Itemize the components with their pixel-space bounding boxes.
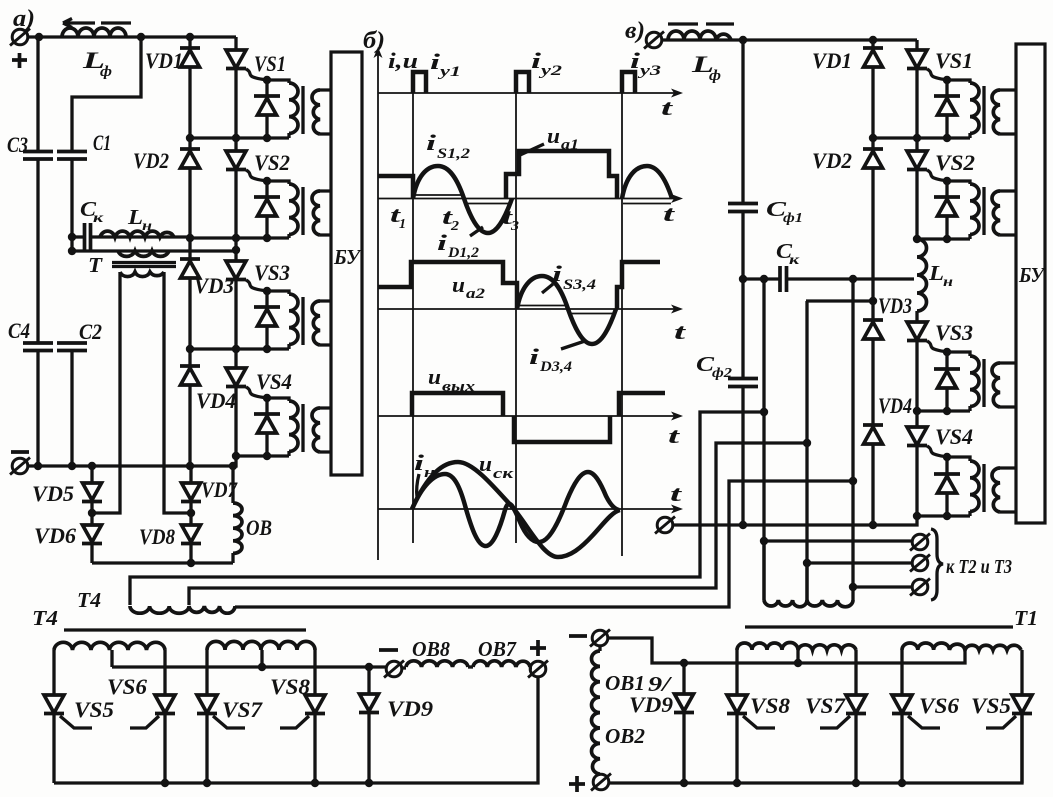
svg-text:VS8: VS8 (750, 693, 790, 718)
diode VD2 (180, 149, 200, 168)
control unit BU1 (331, 52, 362, 475)
svg-text:ф2: ф2 (712, 366, 732, 381)
svg-text:VS5: VS5 (971, 693, 1011, 718)
wire top (27, 35, 236, 38)
node Cf bottom (739, 521, 747, 529)
diode VD8 (181, 525, 201, 544)
node VD9r top (680, 659, 688, 667)
node row3 VD (186, 345, 194, 353)
thyristor VS8 (313, 650, 316, 783)
diode VD1 (180, 48, 200, 67)
node VD9 top (365, 663, 373, 671)
inductor Lf (668, 31, 731, 40)
gate VS6 (130, 716, 159, 728)
leader iD1,2 (470, 227, 483, 236)
svg-text:VD4: VD4 (196, 388, 236, 413)
inductor Ln vertical (917, 239, 927, 311)
diode VD3 (180, 259, 200, 278)
svg-text:у2: у2 (538, 63, 563, 79)
curve in (412, 472, 619, 546)
node tap3 (849, 275, 857, 283)
gate VS5 (60, 716, 92, 728)
node secA tap (794, 659, 802, 667)
wire from minus (607, 638, 965, 663)
vertical tap2 (805, 301, 808, 600)
leader in (417, 474, 419, 497)
diode VD7 (189, 466, 192, 525)
transformer T1 core (745, 625, 1013, 628)
node Ln right (186, 234, 194, 242)
pulse transformer PT2 (254, 177, 331, 242)
svg-text:н: н (424, 465, 435, 481)
pulse transformer PT1 (254, 76, 331, 142)
node VD2-VD3 junction (869, 297, 877, 305)
pulse iy3 (622, 72, 635, 93)
node VD4 bottom (869, 521, 877, 529)
node VD5-VD6 (88, 509, 96, 517)
diode VD6 (82, 525, 102, 544)
grid t3 (515, 93, 517, 543)
svg-text:VD6: VD6 (34, 523, 76, 548)
terminal input top (644, 32, 664, 49)
axis t row2 (378, 198, 676, 200)
diode VD5 (90, 466, 93, 525)
winding OV7 (473, 661, 530, 667)
svg-text:а2: а2 (466, 286, 486, 302)
curve usk (412, 462, 620, 557)
pulse transformer PT4 (254, 394, 331, 460)
svg-text:VS7: VS7 (805, 693, 846, 718)
leader ua1 (520, 144, 544, 155)
pulse transformer PT4r (934, 453, 1016, 520)
thyristor VS3 (907, 322, 927, 341)
node row1 VS (913, 134, 921, 142)
svg-text:VD8: VD8 (139, 524, 175, 549)
thyristor VS4 (234, 349, 237, 456)
gate VS7 (213, 716, 245, 728)
ua2 pulse 2 (617, 262, 660, 309)
node Cf1 top (739, 36, 747, 44)
thyristor VS3 (234, 250, 237, 349)
line B to T4 (189, 443, 807, 605)
control unit BU2 (1016, 44, 1045, 523)
gate VS4 (927, 446, 948, 457)
svg-text:Т: Т (88, 253, 103, 277)
thyristor VS7 (205, 650, 208, 783)
node T prim (68, 247, 76, 255)
node row1 VS (232, 134, 240, 142)
wire row4 (236, 454, 289, 457)
svg-text:t: t (663, 201, 676, 226)
svg-text:VD2: VD2 (133, 148, 169, 173)
line C to T4 (235, 481, 853, 607)
svg-text:L: L (127, 205, 143, 229)
row to T2T3 terminal 3 (849, 583, 857, 591)
wire T sec left (92, 272, 120, 513)
vertical tap1 (762, 279, 765, 600)
wire from tap2 (806, 299, 873, 302)
svg-text:VS1: VS1 (935, 48, 973, 73)
svg-text:С4: С4 (8, 318, 30, 343)
svg-text:VD3: VD3 (194, 273, 234, 298)
capacitor C2 (57, 343, 87, 351)
bottom wire (54, 677, 538, 783)
wire row3 (190, 347, 289, 350)
transformer T primary (72, 249, 236, 252)
svg-text:в): в) (625, 18, 645, 44)
wire row4 (917, 514, 970, 517)
iS3,4 sine hump (517, 276, 568, 309)
node tap1 (760, 275, 768, 283)
svg-text:t: t (670, 481, 683, 506)
terminal plus (528, 661, 548, 678)
inductor Ln (90, 235, 190, 238)
node T prim right top (232, 246, 240, 254)
gate VS5r (986, 716, 1016, 728)
svg-text:S1,2: S1,2 (437, 146, 471, 162)
diode VD3 (863, 320, 883, 339)
wire Cf column (741, 40, 744, 524)
svg-text:н: н (943, 275, 953, 290)
diode VD1 (863, 48, 883, 67)
iD3,4 sine trough (568, 309, 616, 344)
svg-text:t: t (661, 95, 674, 120)
svg-text:L: L (928, 261, 944, 285)
grid t5 (621, 93, 623, 556)
node Ck line left (739, 275, 747, 283)
gate VS2 (927, 170, 948, 181)
terminal bottom left (10, 458, 30, 475)
wire C1 branch (72, 37, 141, 151)
tap group1 (110, 650, 113, 667)
diode VD9 (367, 667, 370, 783)
capacitor Cf1 (728, 204, 758, 212)
node row1 VD (186, 134, 194, 142)
thyristor VS1 (234, 37, 237, 138)
wire top (661, 38, 917, 41)
node row4 VS (913, 512, 921, 520)
svg-text:VS5: VS5 (74, 697, 114, 722)
node bottom row (187, 559, 195, 567)
capacitor Ck (72, 235, 84, 238)
nodes bottom (161, 779, 169, 787)
node line A (760, 408, 768, 416)
gate VS4 (246, 387, 267, 398)
gate VS8 (280, 716, 309, 728)
bottom wire (27, 456, 236, 466)
svg-text:i: i (552, 261, 563, 286)
svg-text:ОВ2: ОВ2 (605, 724, 645, 748)
bottom wire (673, 516, 917, 525)
node row3 VS (913, 407, 921, 415)
svg-text:VD3: VD3 (878, 293, 912, 318)
gate VS8r (743, 716, 775, 728)
wire between (468, 665, 473, 668)
svg-text:VD1: VD1 (812, 48, 852, 73)
node row4 VS (232, 452, 240, 460)
svg-text:D1,2: D1,2 (447, 245, 480, 261)
pulse iy2 (516, 72, 529, 93)
winding OV1 OV2 (598, 645, 601, 651)
thyristor VS7r (854, 650, 857, 783)
leader iD3,4 (561, 341, 585, 349)
thyristor VS2 (234, 138, 237, 238)
pulse transformer PT2r (934, 177, 1016, 243)
thyristor VS6 (163, 650, 166, 783)
wire row1 (873, 136, 970, 139)
brace kT2T3 (931, 529, 943, 600)
svg-text:к: к (93, 211, 104, 226)
diode VD4 (863, 425, 883, 444)
capacitor Ck (743, 277, 779, 280)
svg-text:VS6: VS6 (919, 693, 959, 718)
svg-text:VD4: VD4 (878, 393, 912, 418)
svg-text:u: u (547, 123, 560, 148)
svg-text:i: i (437, 230, 448, 255)
thyristor VS1 (915, 40, 918, 138)
ua2 pulse (378, 262, 517, 309)
plus sign (12, 53, 27, 68)
gate VS1 (246, 69, 267, 80)
svg-text:VD9: VD9 (387, 696, 433, 721)
svg-text:ф1: ф1 (783, 211, 803, 226)
svg-text:VS3: VS3 (254, 260, 290, 285)
thyristor VS8r (735, 650, 738, 783)
wire mid row (112, 665, 387, 668)
node row1 VD (869, 134, 877, 142)
axis t row5 (378, 508, 676, 510)
terminal minus (384, 661, 404, 678)
svg-text:к: к (789, 253, 800, 268)
thyristor VS5 (52, 650, 55, 783)
svg-text:ф: ф (709, 68, 721, 84)
inductor Lf core arrow (63, 19, 95, 28)
tap group2 (260, 650, 263, 667)
svg-text:VS2: VS2 (254, 150, 290, 175)
svg-text:S3,4: S3,4 (563, 277, 597, 293)
svg-text:Т1: Т1 (1014, 606, 1038, 630)
svg-text:VS4: VS4 (256, 369, 292, 394)
pulse transformer PT1r (934, 76, 1016, 142)
svg-text:Т4: Т4 (77, 588, 101, 612)
node row2 VS (913, 235, 921, 243)
thin current line row2 (414, 194, 463, 196)
svg-text:у1: у1 (437, 64, 461, 80)
svg-text:i,u: i,u (388, 48, 418, 73)
svg-text:VD2: VD2 (812, 148, 852, 173)
gate VS6r (908, 716, 940, 728)
svg-text:u: u (479, 451, 492, 476)
svg-text:ОВ8: ОВ8 (412, 637, 450, 661)
wire C1 to mid (70, 159, 73, 251)
gate VS1 (927, 69, 948, 80)
svg-text:VS1: VS1 (254, 51, 286, 76)
gate VS3 (246, 280, 267, 291)
svg-text:VS4: VS4 (935, 424, 973, 449)
svg-text:БУ: БУ (333, 245, 362, 269)
diode VD4 (180, 366, 200, 385)
svg-text:u: u (428, 364, 441, 389)
wire row2 (917, 237, 970, 240)
svg-text:вых: вых (442, 379, 476, 395)
capacitor C1 (57, 152, 87, 160)
svg-text:ф: ф (100, 64, 112, 80)
uvyh square wave (412, 393, 665, 442)
grid t1 (412, 93, 414, 543)
terminal minus top (590, 630, 610, 647)
wire row3 (917, 409, 970, 412)
svg-text:VS7: VS7 (222, 697, 263, 722)
svg-text:VS6: VS6 (107, 674, 147, 699)
node top-left (35, 33, 43, 41)
svg-text:ОВ7: ОВ7 (478, 637, 517, 661)
diode VD9r (682, 663, 685, 783)
svg-text:VS2: VS2 (935, 150, 975, 175)
transformer T1 secondary A (737, 643, 856, 650)
svg-text:t: t (674, 319, 687, 344)
svg-text:t: t (668, 423, 681, 448)
transformer T1 secondary B (902, 643, 1021, 650)
gate VS2 (246, 170, 267, 181)
node VD7-VD8 (187, 509, 195, 517)
iD1,2 sine trough (464, 199, 512, 234)
svg-text:н: н (142, 219, 152, 234)
tap secA (796, 650, 799, 663)
svg-text:С3: С3 (7, 132, 28, 157)
svg-text:С2: С2 (79, 319, 102, 344)
ua1 tail (378, 176, 413, 198)
pulse iy1 (413, 72, 426, 93)
node row2 VS (232, 234, 240, 242)
diode VD2 (863, 149, 883, 168)
transformer T secondary (120, 272, 164, 277)
gate VS7r (820, 716, 850, 728)
wire T sec right (164, 272, 191, 513)
node line B (803, 439, 811, 447)
capacitor Cf2 (728, 379, 758, 387)
svg-text:БУ: БУ (1018, 263, 1046, 287)
thyristor VS2 (915, 138, 918, 239)
vertical tap3 (851, 279, 854, 587)
svg-text:i: i (426, 130, 437, 155)
svg-text:VS8: VS8 (270, 674, 310, 699)
transformer T1 primary (764, 541, 853, 600)
inductor Lf core dashes (668, 22, 734, 25)
svg-text:u: u (452, 272, 465, 297)
svg-text:1: 1 (399, 217, 406, 232)
terminal + input top left (10, 29, 30, 46)
inductor Lf (62, 28, 126, 37)
svg-text:3: 3 (510, 219, 519, 234)
node row3 VS (232, 345, 240, 353)
capacitor C3 (23, 152, 53, 160)
svg-text:у3: у3 (637, 63, 662, 79)
svg-text:VS3: VS3 (935, 320, 973, 345)
axis t row3 (378, 308, 676, 310)
bottom wire (609, 714, 1022, 783)
thyristor VS6r (900, 650, 903, 783)
svg-text:С1: С1 (93, 130, 111, 155)
svg-text:Т4: Т4 (32, 606, 58, 630)
wire row1 (190, 136, 289, 139)
node tap2 (258, 663, 266, 671)
nodes bottom wire (34, 462, 42, 470)
pulse transformer PT3 (254, 287, 331, 353)
node Ck top (68, 233, 76, 241)
svg-text:а): а) (13, 6, 35, 32)
iS1,2 sine hump 2 (622, 166, 672, 199)
svg-text:VD9: VD9 (629, 692, 673, 717)
axis t row1 (378, 92, 676, 94)
iS1,2 sine hump (413, 166, 464, 199)
svg-text:2: 2 (450, 219, 459, 234)
transformer T core (112, 263, 176, 267)
leader iS3,4 (542, 284, 553, 293)
nodes bottom (680, 779, 688, 787)
thyristor VS4 (915, 411, 918, 516)
svg-text:б): б) (363, 28, 385, 54)
inductor Lf core dash (101, 21, 131, 24)
pulse transformer PT3r (934, 348, 1016, 415)
wire row2 (190, 236, 289, 239)
svg-text:VD1: VD1 (145, 48, 183, 73)
winding OV (231, 466, 234, 503)
minus bar (11, 450, 29, 454)
row to T2T3 terminal 2 (803, 559, 811, 567)
svg-text:ск: ск (493, 466, 514, 482)
svg-text:VD5: VD5 (32, 481, 74, 506)
line A to T4 (130, 412, 764, 605)
gate VS3 (927, 341, 948, 352)
thin current line row3 (518, 305, 567, 307)
axis t row4 (378, 415, 676, 417)
wire C2 down (70, 351, 73, 466)
wire left column (36, 37, 39, 466)
winding OV8 (401, 666, 406, 669)
node after Lf (137, 33, 145, 41)
ua1 pulse (506, 151, 617, 199)
transformer T4 winding group1 (54, 642, 165, 650)
svg-text:а1: а1 (561, 137, 579, 153)
terminal bottom (655, 517, 675, 534)
svg-text:i: i (529, 344, 540, 369)
thyristor VS5r (1020, 650, 1023, 783)
row to T2T3 terminal 1 (760, 537, 768, 545)
axis vertical i,u (377, 53, 379, 560)
node line C (849, 477, 857, 485)
node VD1 top (186, 33, 194, 41)
capacitor C4 (23, 343, 53, 351)
terminal plus bottom (591, 774, 611, 791)
node VD1 top (869, 36, 877, 44)
transformer T4 primary winding (130, 606, 235, 613)
transformer T4 winding group2 (207, 641, 315, 650)
bottom row wire (92, 561, 233, 564)
svg-text:D3,4: D3,4 (539, 359, 573, 375)
transformer T4 core (64, 628, 306, 631)
svg-text:ОВ: ОВ (246, 515, 272, 540)
svg-text:к Т2 и Т3: к Т2 и Т3 (946, 556, 1012, 578)
